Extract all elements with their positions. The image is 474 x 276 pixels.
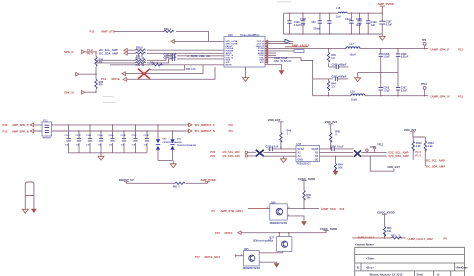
wire row6 bbox=[268, 52, 276, 54]
svg-text:AMP_SPK_N: AMP_SPK_N bbox=[12, 129, 29, 133]
svg-text:P15: P15 bbox=[215, 231, 220, 235]
svg-text:R34 - 0: R34 - 0 bbox=[150, 61, 159, 64]
ground Q26 bbox=[301, 221, 307, 225]
resistor R403 bbox=[424, 137, 426, 166]
resistor R39 bbox=[136, 49, 146, 51]
wire Q27 top stubs bbox=[279, 233, 289, 237]
svg-text:〈AMP_SPK_P: 〈AMP_SPK_P bbox=[429, 48, 450, 52]
svg-text:Q25: Q25 bbox=[244, 248, 249, 251]
svg-text:R39 0: R39 0 bbox=[136, 47, 143, 50]
svg-text:〈I2C_SDA_AMP: 〈I2C_SDA_AMP bbox=[387, 154, 409, 158]
svg-text:AMP_PVDD: AMP_PVDD bbox=[378, 2, 394, 6]
port arrow SPL_AMPOUT_N bbox=[189, 129, 192, 133]
svg-text:15uH: 15uH bbox=[351, 99, 357, 102]
svg-text:Texas+OpAMPGn: Texas+OpAMPGn bbox=[240, 34, 260, 37]
capacitor C202 680pF bbox=[329, 66, 349, 68]
ground staple left bbox=[22, 209, 28, 213]
resistor R402 bbox=[412, 137, 414, 160]
svg-text:4.7uF: 4.7uF bbox=[386, 23, 393, 26]
svg-text:I2C_SCL_HD〉: I2C_SCL_HD〉 bbox=[223, 150, 242, 154]
svg-text:NFM31P: NFM31P bbox=[43, 138, 52, 140]
svg-text:U16: U16 bbox=[228, 33, 233, 37]
svg-text:0.1uF: 0.1uF bbox=[401, 89, 408, 92]
resistor R62 bbox=[392, 237, 402, 239]
svg-text:P1-3: P1-3 bbox=[415, 150, 421, 154]
U16 left pin labels bbox=[226, 40, 238, 66]
title block table bbox=[355, 247, 465, 276]
wire Q26 gnd bbox=[287, 216, 304, 221]
capacitor C200 bbox=[359, 13, 361, 34]
svg-text:P17: P17 bbox=[195, 255, 200, 259]
transistor Q26 bbox=[270, 204, 288, 220]
wire to U16 pin bbox=[175, 40, 225, 42]
svg-text:603: 603 bbox=[312, 21, 317, 24]
ground mid rail bbox=[357, 72, 359, 77]
svg-text:SPK_N: SPK_N bbox=[64, 90, 74, 94]
wire MUTE2 bbox=[241, 231, 326, 233]
resistor R36 47k bbox=[95, 57, 97, 67]
svg-text:P19: P19 bbox=[229, 130, 234, 133]
resistor R49 pulldown bbox=[335, 156, 337, 171]
svg-text:<Variant Name>: <Variant Name> bbox=[355, 243, 375, 247]
wire into Q26 bbox=[248, 208, 270, 210]
svg-text:C181: C181 bbox=[65, 135, 71, 137]
svg-text:C182: C182 bbox=[76, 135, 82, 137]
svg-text:10k: 10k bbox=[338, 166, 343, 169]
svg-text:R38 2: R38 2 bbox=[164, 28, 172, 31]
svg-text:P16: P16 bbox=[340, 207, 345, 211]
wire row PVDD to L17 bbox=[268, 48, 346, 50]
diode D41 bbox=[172, 131, 174, 161]
capacitor C208b bbox=[397, 49, 399, 73]
svg-text:C187: C187 bbox=[132, 135, 138, 137]
svg-text:C186: C186 bbox=[121, 135, 127, 137]
svg-text:2.2k: 2.2k bbox=[416, 145, 421, 148]
svg-text:P12: P12 bbox=[458, 48, 463, 52]
transistor Q25 bbox=[244, 251, 260, 266]
wire cap bank bottom rail bbox=[69, 152, 148, 154]
capacitor C195 220uF bbox=[319, 13, 321, 34]
capacitor C184 bbox=[100, 131, 102, 153]
wire to AMP labels bbox=[361, 153, 386, 156]
wire X row bbox=[125, 65, 203, 74]
svg-text:(25k)+ext+paMBa: (25k)+ext+paMBa bbox=[253, 240, 274, 243]
svg-text:AMP_SPK_P: AMP_SPK_P bbox=[12, 123, 29, 127]
capacitor C198a bbox=[289, 13, 291, 34]
svg-text:10uF: 10uF bbox=[356, 24, 362, 27]
ground Q25 bbox=[274, 263, 280, 267]
IC U17 bbox=[296, 146, 320, 162]
capacitor C183 bbox=[89, 125, 91, 153]
svg-text:B: B bbox=[357, 266, 359, 270]
wire SPK_N bbox=[85, 91, 96, 93]
svg-text:MUTE: MUTE bbox=[226, 64, 233, 66]
capacitor C205 bbox=[380, 72, 382, 95]
resistor R41 bbox=[136, 52, 146, 54]
wire row5 label box bbox=[268, 50, 294, 52]
wire from circles bbox=[248, 152, 257, 156]
svg-text:SCL: SCL bbox=[260, 62, 265, 64]
capacitor C187 bbox=[135, 125, 137, 153]
wire top rail bbox=[284, 12, 383, 14]
resistor R37 47k bbox=[95, 79, 97, 89]
capacitor C201 680pF bbox=[313, 78, 349, 80]
wire bottom rail bbox=[284, 33, 383, 35]
svg-text:VDD_EXT: VDD_EXT bbox=[387, 165, 400, 169]
svg-text:I2C_SDA_AMP: I2C_SDA_AMP bbox=[426, 164, 445, 168]
svg-text:〈I2C_SCL_AMP: 〈I2C_SCL_AMP bbox=[387, 151, 409, 155]
svg-text:Wxxxx, Nxxxxxx 13, 2013: Wxxxx, Nxxxxxx 13, 2013 bbox=[370, 272, 403, 276]
svg-text:C202 +680pF: C202 +680pF bbox=[332, 63, 347, 66]
wire into FL1 bbox=[34, 125, 42, 131]
svg-text:L19: L19 bbox=[351, 91, 356, 94]
svg-text:U17: U17 bbox=[297, 142, 302, 146]
inductor L18 bbox=[338, 12, 347, 13]
svg-text:P1-3: P1-3 bbox=[415, 154, 421, 158]
resistor R46 bbox=[280, 133, 282, 143]
ground U16 bbox=[245, 67, 247, 78]
svg-text:TP12: TP12 bbox=[377, 144, 383, 146]
transistor Q27 bbox=[277, 237, 292, 252]
svg-text:R33 -10: R33 -10 bbox=[136, 64, 145, 67]
svg-text:〈AMP_SPK_N: 〈AMP_SPK_N bbox=[429, 95, 450, 99]
resistor R48 bbox=[330, 132, 332, 142]
svg-text:I2C_SCL_AMP: I2C_SCL_AMP bbox=[426, 158, 445, 162]
wire row1 bbox=[268, 40, 285, 42]
wire row7 bbox=[268, 54, 276, 56]
svg-text:P11: P11 bbox=[90, 30, 95, 34]
wire mid gnd rail bbox=[358, 71, 398, 73]
svg-text:AMP_STB_HDZ〉: AMP_STB_HDZ〉 bbox=[221, 209, 245, 213]
svg-text:10k: 10k bbox=[306, 197, 311, 200]
svg-text:MUTE: MUTE bbox=[112, 77, 120, 81]
capacitor C207 bbox=[397, 72, 399, 95]
port arrow RESET bbox=[171, 40, 174, 44]
capacitor C196 bbox=[302, 13, 304, 34]
svg-text:C2xx: C2xx bbox=[345, 18, 351, 21]
wire FL1 out N bbox=[52, 130, 189, 132]
svg-text:R35 4.7k: R35 4.7k bbox=[186, 68, 197, 71]
resistor R34 bbox=[153, 64, 163, 66]
resistor R63 bbox=[383, 226, 385, 236]
no-connect X bbox=[138, 69, 150, 79]
svg-text:<Doc>: <Doc> bbox=[366, 266, 375, 270]
capacitor C186 bbox=[123, 131, 125, 153]
wire boost bbox=[126, 182, 207, 184]
capacitor C193 bbox=[172, 54, 174, 58]
svg-text:R62 ,_2: R62 ,_2 bbox=[391, 235, 400, 238]
snubber top R40 bbox=[328, 49, 330, 67]
capacitor C194a bbox=[328, 13, 330, 34]
wire OC_SDA bbox=[127, 52, 224, 54]
svg-text:P18: P18 bbox=[229, 124, 234, 127]
wire row8 to vertical bbox=[268, 58, 313, 96]
svg-text:10k: 10k bbox=[387, 230, 392, 233]
wire diode gnd rail bbox=[158, 161, 173, 164]
svg-text:C185: C185 bbox=[109, 135, 115, 137]
wire row2 bbox=[268, 43, 293, 45]
pin circle SCL bbox=[245, 151, 247, 153]
wire beads to U17 bbox=[264, 153, 297, 157]
svg-text:SPK_P: SPK_P bbox=[64, 50, 74, 54]
ferrite beads FB2 crossing bbox=[354, 150, 361, 156]
resistor R33 bbox=[136, 62, 146, 64]
wire VDD_EXT elbow bbox=[370, 156, 394, 171]
capacitor C181 bbox=[68, 125, 70, 153]
svg-text:VCCB: VCCB bbox=[311, 148, 318, 151]
svg-text:C214 0.1uF: C214 0.1uF bbox=[330, 145, 344, 148]
wire Q26 out bbox=[287, 208, 319, 210]
wire OC_SCL bbox=[127, 49, 224, 51]
svg-text:SPL_AMPOUT_P: SPL_AMPOUT_P bbox=[195, 124, 215, 127]
svg-text:C188: C188 bbox=[144, 135, 150, 137]
svg-text:0.01uF: 0.01uF bbox=[401, 56, 409, 59]
wire row E res bbox=[110, 64, 224, 66]
buffer triangle bbox=[285, 39, 290, 43]
svg-text:MUTE: MUTE bbox=[225, 231, 233, 235]
wire U17 right rows bbox=[320, 153, 354, 157]
wire SPK_P bbox=[85, 51, 96, 53]
svg-text:P1-3: P1-3 bbox=[87, 51, 93, 55]
svg-text:TP10: TP10 bbox=[421, 83, 427, 86]
resistor R32 bbox=[136, 59, 146, 61]
resistor R50 bbox=[303, 190, 305, 200]
svg-text:〈AMP_FAULT_HDZ: 〈AMP_FAULT_HDZ bbox=[406, 237, 433, 241]
svg-text:cxxxx-xxxxx: cxxxx-xxxxx bbox=[277, 0, 292, 3]
svg-text:PESD5V0S1BA/SN: PESD5V0S1BA/SN bbox=[163, 141, 182, 144]
U16 right pin stubs bbox=[265, 41, 268, 64]
wire mid tap bbox=[79, 73, 96, 75]
wire SPK_N out bbox=[365, 95, 428, 97]
net tie W1 bbox=[25, 182, 34, 209]
svg-text:P21: P21 bbox=[211, 154, 216, 158]
svg-text:P13: P13 bbox=[458, 94, 463, 98]
svg-text:OC_SDA_AMP: OC_SDA_AMP bbox=[99, 51, 118, 55]
wire Q27 bottom stub bbox=[282, 251, 284, 253]
svg-text:<RevCode: <RevCode bbox=[456, 267, 469, 270]
wire SPK_P out bbox=[360, 48, 428, 50]
capacitor C185 bbox=[112, 125, 114, 153]
wire divider vertical bbox=[95, 52, 97, 92]
svg-text:1uF: 1uF bbox=[371, 24, 376, 27]
ground R49 bbox=[333, 171, 339, 175]
svg-text:47k: 47k bbox=[99, 84, 104, 87]
svg-text:Q26: Q26 bbox=[271, 201, 276, 204]
wire stub row bbox=[149, 65, 185, 70]
svg-text:C200: C200 bbox=[356, 18, 362, 21]
resistor R61 bbox=[175, 182, 185, 184]
port arrow SPL_AMPOUT_P bbox=[189, 123, 192, 127]
svg-text:P13: P13 bbox=[3, 129, 8, 133]
wire AMP_STB bbox=[114, 31, 209, 41]
svg-text:GND: GND bbox=[298, 159, 304, 162]
svg-text:TXS0102-D1: TXS0102-D1 bbox=[297, 162, 312, 165]
U16 right pin labels bbox=[256, 40, 265, 64]
svg-text:+I,_DATA_+10k_+Ox: +I,_DATA_+10k_+Ox bbox=[187, 55, 211, 58]
svg-text:0.1uF/1uF: 0.1uF/1uF bbox=[294, 24, 306, 27]
svg-text:L17: L17 bbox=[350, 43, 355, 46]
resistor R38 bbox=[164, 30, 174, 32]
port arrow mid bbox=[76, 72, 79, 76]
svg-text:FL1: FL1 bbox=[43, 119, 48, 122]
svg-text:DMN2407AFB4: DMN2407AFB4 bbox=[243, 267, 261, 270]
ground staple right bbox=[31, 209, 37, 213]
svg-text:VCCA: VCCA bbox=[298, 148, 305, 151]
wire row IN_A with cap bbox=[96, 56, 224, 61]
resistor R44 bbox=[328, 79, 330, 96]
inductor L17 bbox=[346, 47, 360, 49]
svg-text:C183: C183 bbox=[86, 135, 92, 137]
ground diodes bbox=[170, 164, 176, 168]
svg-text:P12: P12 bbox=[3, 123, 8, 127]
pin circle SDA bbox=[245, 155, 247, 157]
svg-text:R32 -10: R32 -10 bbox=[136, 57, 145, 60]
ground U16 right bbox=[268, 65, 282, 71]
wire AMP_FAULT bbox=[352, 237, 405, 239]
svg-text:C184: C184 bbox=[98, 134, 104, 137]
capacitor C182 bbox=[78, 131, 80, 153]
wire FL1 out P bbox=[52, 124, 189, 126]
ferrite beads FB crossing bbox=[256, 150, 264, 157]
svg-text:MUTE_HDJ: MUTE_HDJ bbox=[205, 255, 221, 259]
svg-text:AMP_STB: AMP_STB bbox=[101, 30, 115, 34]
svg-text:1.5uF: 1.5uF bbox=[383, 89, 390, 92]
svg-text:P9: P9 bbox=[444, 237, 448, 241]
svg-text:C196: C196 bbox=[300, 18, 306, 21]
capacitor C214 bbox=[320, 148, 354, 150]
wire Q25 out bottom bbox=[259, 262, 276, 263]
svg-text:2.2k: 2.2k bbox=[428, 145, 433, 148]
svg-text:OE: OE bbox=[315, 159, 319, 162]
svg-text:C201 +680pF: C201 +680pF bbox=[332, 76, 347, 79]
svg-text:220uF: 220uF bbox=[314, 27, 322, 30]
svg-text:C194 0.1uF: C194 0.1uF bbox=[164, 56, 177, 59]
op-amp U16 box bbox=[224, 37, 265, 68]
filter FL1 bbox=[42, 122, 52, 136]
diode D40 bbox=[157, 125, 159, 161]
wire left vert bbox=[283, 13, 285, 34]
svg-text:TP4: TP4 bbox=[422, 39, 427, 42]
svg-text:P7: P7 bbox=[212, 209, 216, 213]
wire Q25 out top bbox=[259, 252, 283, 254]
inductor L19 bbox=[313, 95, 351, 97]
svg-text:<Title>: <Title> bbox=[366, 257, 375, 261]
capacitor C197 4.7uF bbox=[381, 13, 383, 34]
U16 right pin arrows bbox=[265, 40, 267, 63]
svg-text:L18: L18 bbox=[336, 7, 341, 10]
capacitor C206 bbox=[380, 49, 382, 73]
svg-text:PESD5V0S1BA/SN: PESD5V0S1BA/SN bbox=[177, 144, 196, 147]
wire into Q25 bbox=[236, 255, 244, 257]
svg-text:R61 2: R61 2 bbox=[173, 186, 181, 189]
svg-text:1uH: 1uH bbox=[336, 16, 341, 19]
capacitor C199 bbox=[367, 13, 369, 34]
svg-text:P20: P20 bbox=[211, 150, 216, 154]
svg-text:DMN2407AFB4: DMN2407AFB4 bbox=[270, 222, 288, 225]
svg-text:〈AMP_STB: 〈AMP_STB bbox=[319, 207, 335, 211]
wire MUTE bbox=[126, 67, 215, 79]
svg-text:SPL_AMPOUT_N: SPL_AMPOUT_N bbox=[195, 130, 215, 133]
capacitor C188 bbox=[146, 131, 148, 153]
svg-text:OSC_PLAP+5V: OSC_PLAP+5V bbox=[274, 60, 292, 63]
ground U17 left bbox=[283, 156, 285, 159]
note gray dashes bbox=[103, 96, 116, 102]
capacitor C2xx bbox=[350, 13, 352, 34]
port arrow NC row bbox=[122, 72, 125, 76]
wire row IN_B with cap bbox=[96, 59, 224, 63]
ground cap bank bbox=[381, 34, 383, 36]
svg-text:15uH: 15uH bbox=[350, 54, 356, 57]
svg-text:P14: P14 bbox=[101, 77, 107, 81]
ground cap bank rail bbox=[100, 153, 102, 157]
capacitor C194 bbox=[172, 57, 174, 61]
svg-text:I2C_SDA_HD〉: I2C_SDA_HD〉 bbox=[223, 154, 242, 158]
svg-text:1.5uF: 1.5uF bbox=[383, 56, 390, 59]
